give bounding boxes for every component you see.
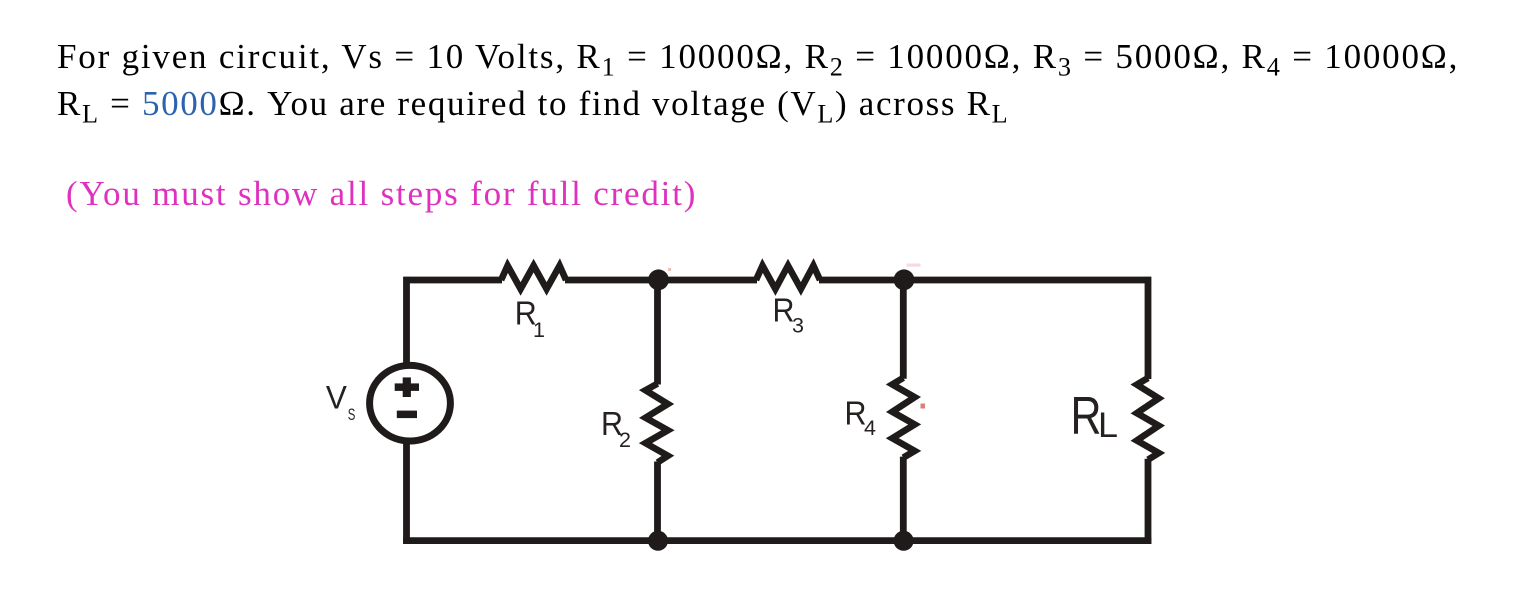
svg-text:L: L	[1098, 406, 1118, 445]
label R3	[773, 292, 805, 337]
voltage source minus sign	[397, 411, 417, 419]
wire top right segment	[819, 277, 1151, 284]
svg-text:V: V	[326, 380, 347, 416]
resistor R1	[501, 266, 566, 289]
node junction top between R1 and R3	[648, 269, 669, 290]
svg-text:1: 1	[533, 318, 545, 342]
faint red artifact right of R4	[921, 404, 926, 409]
wire top left segment	[403, 277, 502, 284]
wire R4 branch lower	[900, 457, 907, 541]
label RL	[1071, 387, 1119, 446]
resistor RL	[1137, 378, 1159, 460]
svg-text:R: R	[1071, 387, 1102, 446]
instruction note	[66, 176, 697, 211]
svg-text:2: 2	[619, 428, 631, 452]
problem statement line 1	[57, 39, 1459, 74]
wire left side upper	[403, 277, 410, 366]
voltage source Vs circle	[370, 365, 451, 441]
wire R2 branch upper	[654, 280, 661, 385]
wire R4 branch upper	[900, 280, 907, 379]
resistor R3	[756, 266, 820, 289]
resistor R4	[892, 378, 914, 458]
svg-text:4: 4	[864, 416, 876, 440]
wire right side upper	[1145, 277, 1152, 379]
resistor R2	[646, 384, 668, 463]
svg-text:S: S	[348, 405, 356, 424]
wire R2 branch lower	[654, 462, 661, 541]
wire right side lower	[1145, 459, 1152, 544]
wire bottom	[403, 537, 1151, 544]
label Vs	[326, 380, 356, 425]
svg-text:3: 3	[792, 314, 804, 338]
faint pink artifact above node between R3 and RL	[907, 264, 921, 267]
node junction bottom below R2	[648, 531, 668, 551]
voltage source plus sign	[395, 377, 419, 397]
problem statement line 2	[57, 86, 1009, 121]
label R1	[515, 296, 545, 342]
node junction bottom below R4	[894, 531, 914, 551]
wire top middle segment	[565, 277, 757, 284]
faint pink artifact above node between R1 and R3	[668, 268, 671, 271]
node junction top between R3 and RL	[894, 269, 915, 290]
label R2	[601, 406, 631, 452]
wire left side lower	[403, 441, 410, 544]
label R4	[845, 395, 877, 440]
